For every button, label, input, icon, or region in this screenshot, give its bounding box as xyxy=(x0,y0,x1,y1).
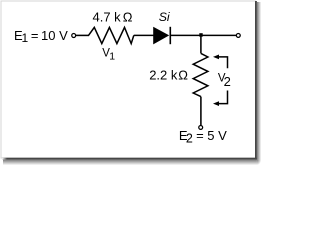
wire from junction down to resistor R2 xyxy=(200,36,202,53)
wire from resistor R2 down to E2 terminal xyxy=(200,97,202,126)
resistor R2 2.2 kOhm xyxy=(193,53,208,96)
voltage arrow V2 bottom xyxy=(213,91,228,107)
label 4.7 kOhm xyxy=(93,10,133,25)
svg-text:2: 2 xyxy=(186,131,193,145)
svg-text:1: 1 xyxy=(109,51,115,63)
svg-text:10 V: 10 V xyxy=(41,28,68,43)
terminal E1 xyxy=(72,34,76,38)
svg-text:2: 2 xyxy=(224,74,231,89)
svg-text:=: = xyxy=(31,28,39,43)
wire from E1 terminal to resistor R1 xyxy=(76,34,89,36)
svg-text:2.2 k: 2.2 k xyxy=(149,67,178,82)
voltage arrow V2 top xyxy=(213,55,228,69)
svg-text:Ω: Ω xyxy=(178,67,188,82)
label 2.2 kOhm xyxy=(149,67,188,82)
label V2 xyxy=(218,73,231,90)
node junction at top of R2 xyxy=(199,33,202,37)
svg-text:1: 1 xyxy=(22,31,29,45)
svg-text:=: = xyxy=(196,128,204,143)
label E2 = 5 V xyxy=(179,128,227,146)
terminal E2 xyxy=(199,125,203,129)
wire from resistor R1 to diode D1 xyxy=(134,34,154,36)
output terminal (open circle, top right) xyxy=(236,33,240,37)
svg-text:Ω: Ω xyxy=(123,10,133,25)
diode D1 xyxy=(154,27,171,44)
label V1 xyxy=(102,48,115,63)
label Si xyxy=(159,10,171,24)
svg-text:Si: Si xyxy=(159,10,171,24)
wire from diode D1 to output terminal xyxy=(170,34,236,36)
svg-text:4.7 k: 4.7 k xyxy=(93,10,122,25)
svg-text:5 V: 5 V xyxy=(207,128,227,143)
label E1 = 10 V xyxy=(14,28,68,45)
resistor R1 4.7 kOhm xyxy=(89,27,134,43)
